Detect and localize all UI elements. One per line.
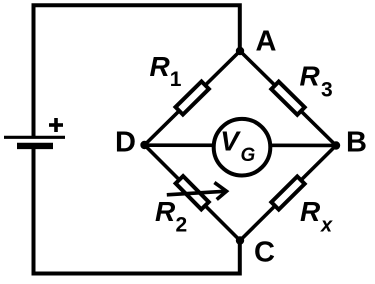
wire: battery bottom to node C (left vertical, bottom horizontal, up to C)	[34, 146, 240, 274]
label R1	[150, 51, 182, 91]
label Rx	[300, 196, 333, 237]
svg-text:B: B	[346, 127, 367, 159]
wire: battery top to node A (left vertical, top horizontal, down to A)	[34, 5, 240, 137]
label R3	[300, 61, 333, 102]
svg-text:R: R	[300, 61, 321, 92]
svg-text:V: V	[220, 125, 241, 156]
label R2	[155, 196, 187, 237]
svg-text:R: R	[155, 196, 176, 227]
svg-text:2: 2	[176, 213, 188, 236]
svg-text:D: D	[115, 127, 136, 159]
wire: galvanometer branch D to B	[145, 143, 337, 147]
svg-text:G: G	[241, 145, 256, 166]
battery B1 positive plate (long thin)	[4, 136, 65, 139]
node D junction dot	[140, 141, 148, 149]
resistor R3 body	[271, 82, 304, 115]
svg-text:C: C	[254, 236, 275, 268]
node B junction dot	[332, 141, 340, 149]
resistor R1 body	[176, 81, 209, 114]
svg-text:R: R	[300, 196, 321, 227]
resistor R2 body (variable)	[176, 176, 209, 209]
battery B1 negative plate (short thick)	[17, 143, 53, 149]
svg-text:3: 3	[321, 79, 333, 102]
wire: bridge arm C to B	[240, 146, 336, 241]
wire: bridge arm A to B	[240, 51, 336, 146]
node C junction dot	[236, 236, 244, 244]
wire: bridge arm D to A	[145, 51, 241, 145]
node A junction dot	[236, 47, 244, 55]
resistor Rx body	[271, 176, 304, 209]
variable resistor R2 arrow	[167, 183, 227, 200]
battery plus sign	[49, 118, 63, 132]
svg-text:A: A	[256, 26, 277, 58]
wire: bridge arm D to C	[145, 145, 241, 241]
svg-text:R: R	[150, 51, 171, 82]
svg-text:1: 1	[170, 68, 182, 91]
galvanometer U1 circle	[214, 119, 271, 176]
svg-text:x: x	[320, 214, 333, 236]
